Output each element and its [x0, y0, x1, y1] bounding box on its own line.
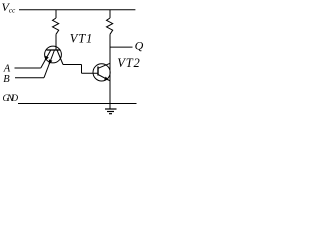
- wire R2 bottom to Q junction and VT2 collector bus: [109, 34, 111, 103]
- transistor VT2 emitter: [98, 75, 110, 81]
- wire R1 bottom lead to VT1 base: [55, 34, 57, 50]
- transistor VT2 collector: [98, 63, 110, 68]
- svg-text:B: B: [3, 74, 10, 85]
- wire input B: [15, 77, 44, 79]
- svg-text:VT1: VT1: [70, 31, 93, 45]
- ground stub: [109, 104, 111, 110]
- transistor VT2 base bar: [97, 67, 99, 76]
- Vcc rail (top supply wire): [19, 9, 135, 11]
- arrowhead emitter 1: [45, 56, 49, 62]
- transistor VT1 emitter 1 (to input A): [41, 50, 51, 68]
- transistor VT1 emitter 2 (to input B): [44, 50, 55, 78]
- svg-text:GND: GND: [3, 94, 19, 104]
- arrowhead VT2 emitter: [104, 77, 109, 81]
- transistor VT1 base bar: [47, 49, 61, 51]
- GND rail: [18, 103, 137, 105]
- transistor VT1 circle: [45, 46, 62, 63]
- svg-text:Q: Q: [135, 39, 144, 53]
- transistor VT2 circle: [93, 64, 110, 81]
- wire input A: [15, 67, 41, 69]
- wire R1 top lead: [55, 10, 57, 18]
- resistor R1: [53, 18, 59, 34]
- ground bar 1: [105, 108, 117, 110]
- wire to VT2 base (horiz 2): [82, 72, 99, 74]
- wire R2 top lead: [109, 10, 111, 18]
- resistor R2: [107, 18, 113, 34]
- svg-text:A: A: [3, 64, 11, 75]
- svg-text:VT2: VT2: [117, 56, 140, 70]
- ground bar 3: [109, 113, 112, 115]
- ground bar 2: [107, 111, 114, 113]
- wire VT1 collector to VT2 base (horiz 1): [63, 64, 82, 66]
- transistor VT1 collector: [57, 50, 63, 65]
- wire VT1-VT2 vertical jog: [81, 65, 83, 74]
- wire output Q: [110, 46, 133, 48]
- arrowhead emitter 2: [49, 59, 53, 65]
- svg-text:cc: cc: [9, 5, 16, 14]
